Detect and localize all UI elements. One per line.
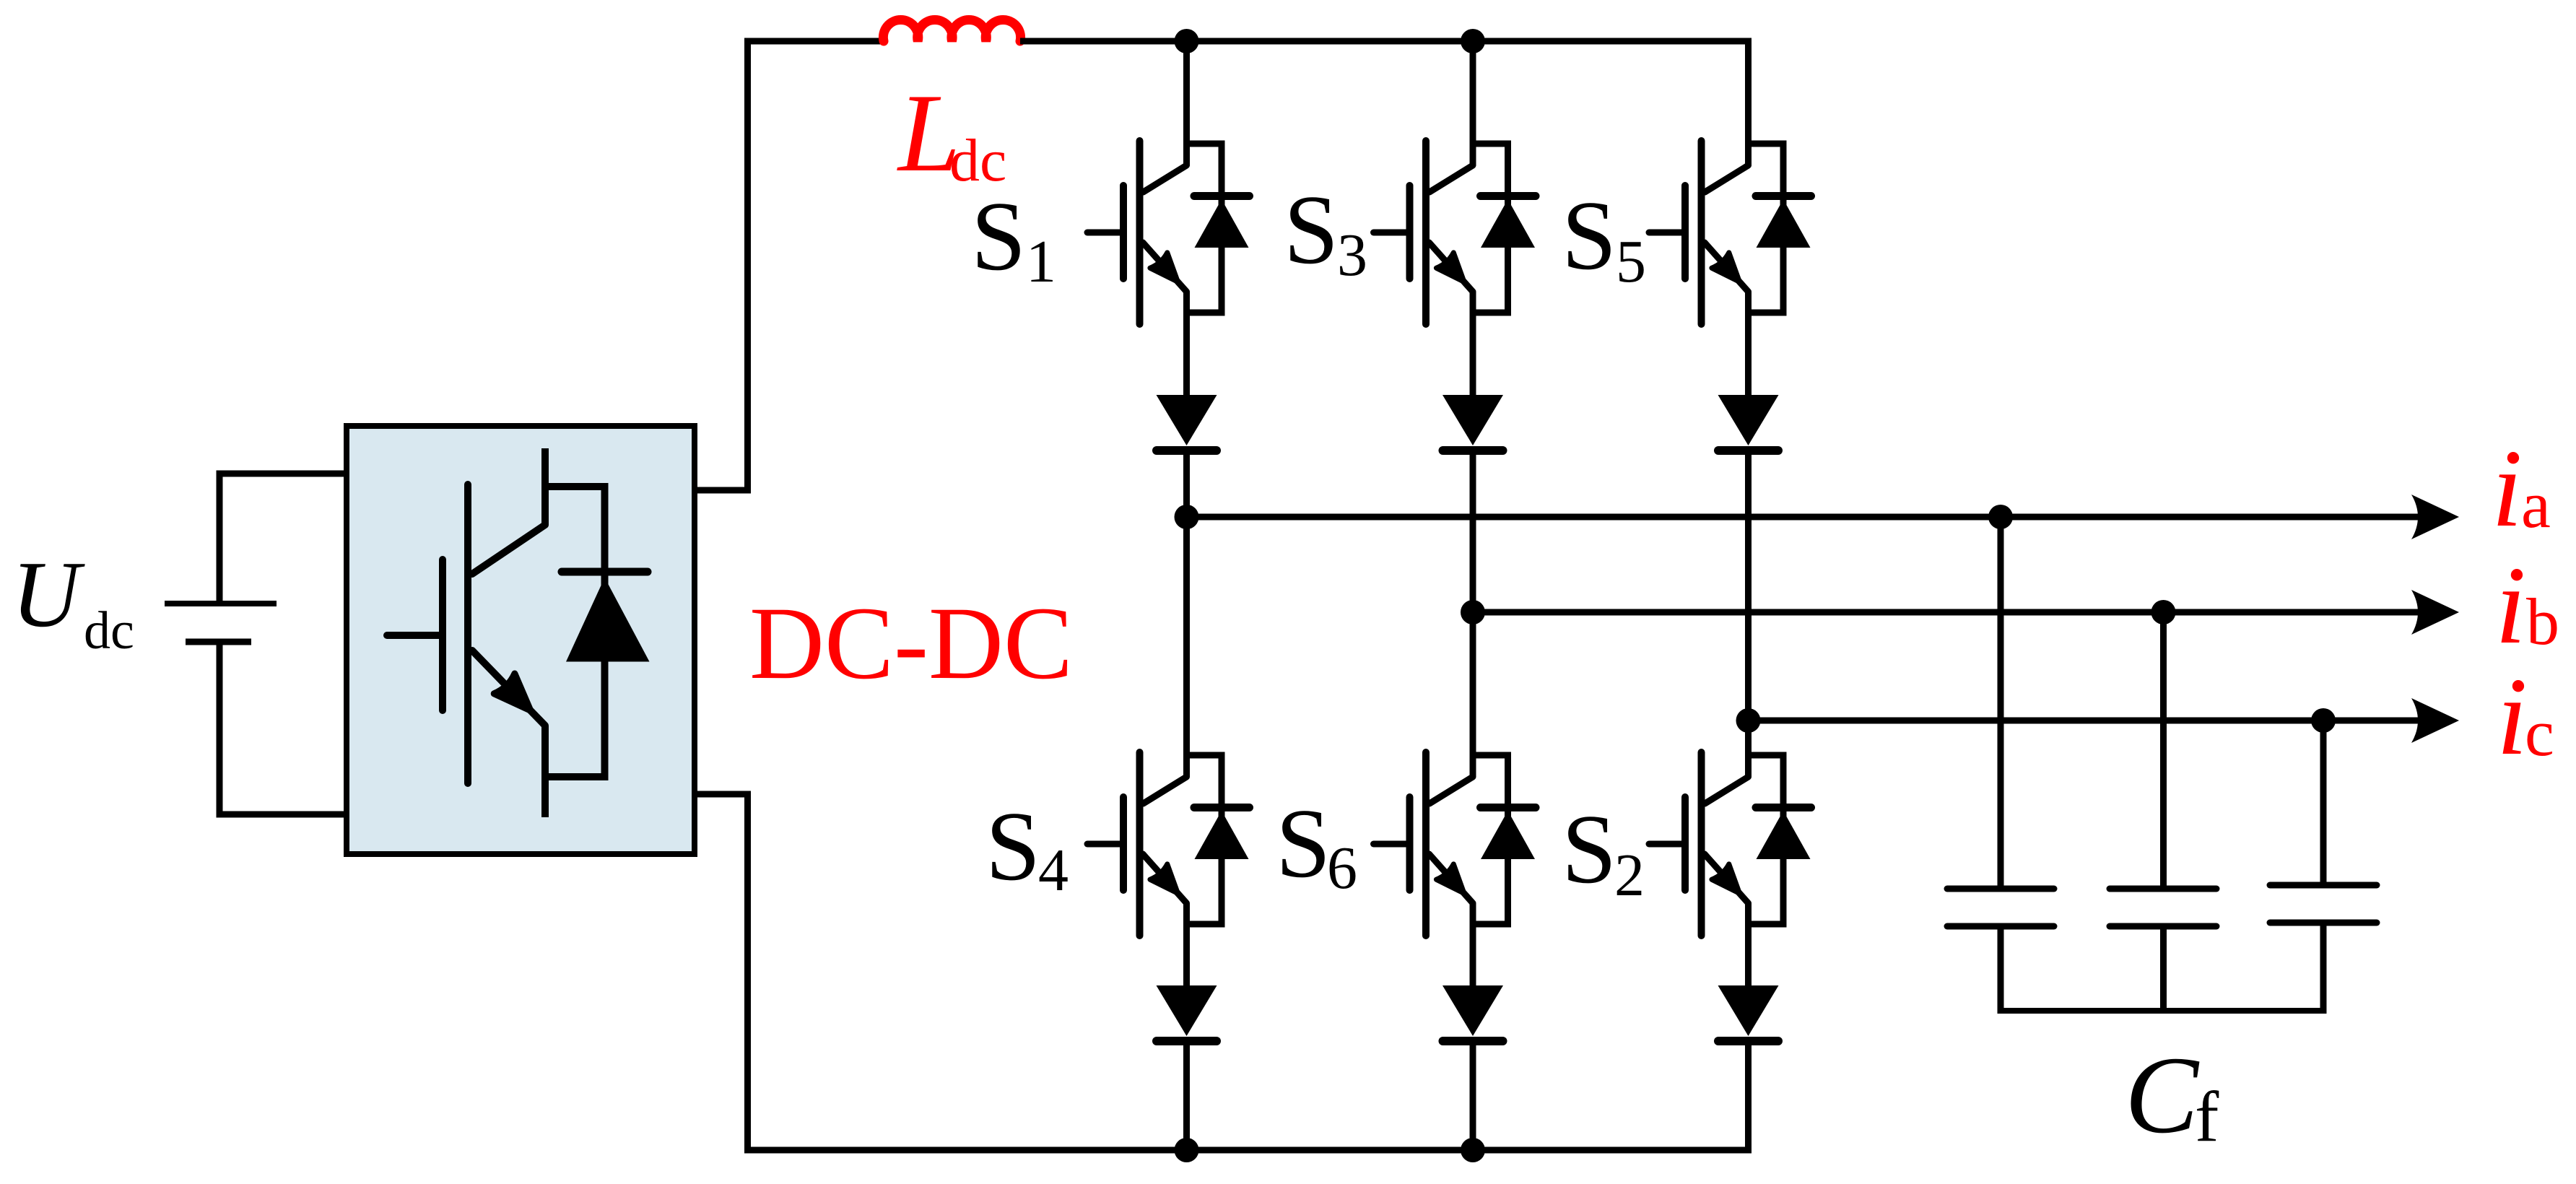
svg-text:a: a bbox=[2521, 468, 2551, 541]
battery U_dc negative plate bbox=[186, 639, 251, 645]
IGBT S1 collector-to-diode jog bbox=[1183, 141, 1225, 147]
svg-text:c: c bbox=[2525, 696, 2554, 770]
svg-text:4: 4 bbox=[1038, 837, 1069, 904]
svg-text:C: C bbox=[2125, 1035, 2200, 1157]
IGBT S2 emitter wire bbox=[1745, 903, 1752, 985]
IGBT S1 gate lead bbox=[1087, 230, 1123, 236]
node: bottom rail junction leg B bbox=[1461, 1138, 1485, 1162]
IGBT inside DC-DC block: emitter diagonal bbox=[472, 650, 545, 726]
IGBT inside DC-DC block: emitter jog bbox=[541, 773, 609, 780]
anti-parallel diode branch of S6 bbox=[1505, 752, 1511, 928]
wire: capacitor common bottom bbox=[1998, 1008, 2327, 1014]
IGBT S3 emitter diagonal bbox=[1430, 243, 1474, 292]
IGBT inside DC-DC block: body bar bbox=[464, 484, 471, 783]
anti-parallel diode of S5 cathode bar bbox=[1756, 192, 1811, 200]
IGBT S4 collector-to-diode jog bbox=[1183, 752, 1225, 759]
series diode below S6 triangle bbox=[1443, 985, 1503, 1036]
node: filter cap 2 junction bbox=[2151, 600, 2176, 624]
svg-text:i: i bbox=[2497, 656, 2528, 778]
svg-text:DC-DC: DC-DC bbox=[749, 586, 1073, 701]
IGBT S2 collector-to-diode jog bbox=[1745, 752, 1787, 759]
series diode below S2 anode wire bbox=[1745, 1045, 1752, 1150]
anti-parallel diode of S4 cathode bar bbox=[1194, 804, 1250, 811]
IGBT S6 collector wire bbox=[1470, 612, 1476, 777]
IGBT S1 emitter wire bbox=[1183, 292, 1190, 395]
arrowhead i_c bbox=[2411, 698, 2459, 743]
svg-text:S: S bbox=[985, 791, 1040, 901]
IGBT inside DC-DC block: gate lead bbox=[387, 632, 443, 639]
IGBT S3 gate plate bbox=[1406, 186, 1414, 279]
IGBT S2 emitter diagonal bbox=[1705, 854, 1749, 903]
IGBT S5 gate plate bbox=[1681, 186, 1689, 279]
IGBT S5 gate lead bbox=[1649, 230, 1685, 236]
IGBT inside DC-DC block: emitter arrowhead bbox=[494, 674, 531, 710]
capacitor C_f-2 bottom plate bbox=[2110, 923, 2216, 930]
IGBT inside DC-DC block: collector jog bbox=[541, 483, 609, 490]
capacitor C_f-1 top plate bbox=[1947, 886, 2054, 892]
node: bottom rail junction leg A bbox=[1175, 1138, 1199, 1162]
anti-parallel diode of S2 triangle bbox=[1757, 811, 1811, 859]
wire: battery negative to DC-DC input bbox=[219, 642, 349, 814]
svg-text:S: S bbox=[1276, 788, 1331, 898]
svg-text:i: i bbox=[2495, 544, 2526, 667]
IGBT S6 gate lead bbox=[1374, 841, 1410, 848]
IGBT S2 collector wire bbox=[1745, 721, 1752, 777]
series diode below S3 triangle bbox=[1443, 395, 1503, 445]
IGBT S3 collector diagonal bbox=[1430, 165, 1473, 192]
IGBT S2 gate plate bbox=[1681, 797, 1689, 890]
anti-parallel diode of S1 triangle bbox=[1195, 199, 1249, 248]
IGBT S6 emitter-to-diode jog bbox=[1470, 921, 1512, 928]
series diode below S4 anode wire bbox=[1183, 1045, 1190, 1150]
wire: top rail corner into leg C bbox=[1745, 38, 1752, 45]
IGBT S1 collector wire bbox=[1183, 41, 1190, 165]
IGBT S6 emitter wire bbox=[1470, 903, 1476, 985]
IGBT S5 collector-to-diode jog bbox=[1745, 141, 1787, 147]
svg-text:1: 1 bbox=[1026, 228, 1056, 295]
IGBT S3 collector wire bbox=[1470, 41, 1476, 165]
svg-text:S: S bbox=[1562, 180, 1616, 290]
anti-parallel diode branch of S2 bbox=[1780, 752, 1787, 928]
series diode below S1 triangle bbox=[1157, 395, 1217, 445]
anti-parallel diode branch of S5 bbox=[1780, 141, 1787, 316]
svg-text:3: 3 bbox=[1337, 222, 1367, 289]
IGBT S4 collector wire bbox=[1183, 517, 1190, 777]
IGBT S6 emitter arrowhead bbox=[1436, 864, 1464, 894]
svg-text:S: S bbox=[1562, 794, 1616, 904]
IGBT S2 collector diagonal bbox=[1705, 777, 1749, 804]
IGBT S4 emitter wire bbox=[1183, 903, 1190, 985]
wire: cap 2 lower lead bbox=[2160, 926, 2167, 1011]
series diode below S5 anode wire bbox=[1745, 455, 1752, 721]
IGBT S4 emitter-to-diode jog bbox=[1183, 921, 1225, 928]
IGBT S3 emitter-to-diode jog bbox=[1470, 310, 1512, 316]
IGBT S6 collector-to-diode jog bbox=[1470, 752, 1512, 759]
series diode below S5 cathode bar bbox=[1718, 446, 1778, 455]
IGBT S5 body bar bbox=[1698, 141, 1705, 324]
IGBT inside DC-DC block: collector diagonal bbox=[472, 525, 545, 574]
IGBT S1 body bar bbox=[1136, 141, 1144, 324]
anti-parallel diode of S3 cathode bar bbox=[1481, 192, 1536, 200]
IGBT S2 emitter arrowhead bbox=[1712, 864, 1740, 894]
anti-parallel diode of S4 triangle bbox=[1195, 811, 1249, 859]
IGBT S3 collector-to-diode jog bbox=[1470, 141, 1512, 147]
wire: cap 1 upper lead bbox=[1998, 517, 2004, 889]
battery U_dc positive plate bbox=[165, 601, 277, 606]
IGBT S5 emitter arrowhead bbox=[1712, 253, 1740, 282]
IGBT S5 collector wire bbox=[1745, 41, 1752, 165]
svg-text:5: 5 bbox=[1616, 228, 1646, 295]
node B junction bbox=[1461, 600, 1485, 624]
IGBT S6 gate plate bbox=[1406, 797, 1414, 890]
wire: cap 3 upper lead bbox=[2320, 721, 2327, 885]
wire: phase c output line bbox=[1749, 718, 2421, 724]
IGBT S1 emitter diagonal bbox=[1143, 243, 1187, 292]
IGBT inside DC-DC block: emitter wire bbox=[541, 726, 549, 817]
IGBT S6 body bar bbox=[1422, 752, 1430, 936]
wire: cap 2 upper lead bbox=[2160, 612, 2167, 889]
node: filter cap 1 junction bbox=[1988, 505, 2013, 529]
wire: cap 3 lower lead bbox=[2320, 923, 2327, 1011]
IGBT S1 emitter arrowhead bbox=[1150, 253, 1178, 282]
IGBT S4 emitter diagonal bbox=[1143, 854, 1187, 903]
node: top rail junction leg A bbox=[1175, 29, 1199, 53]
IGBT S3 body bar bbox=[1422, 141, 1430, 324]
series diode below S2 triangle bbox=[1718, 985, 1779, 1036]
IGBT S5 emitter wire bbox=[1745, 292, 1752, 395]
wire: battery positive to DC-DC input bbox=[219, 474, 349, 604]
capacitor C_f-1 bottom plate bbox=[1947, 923, 2054, 930]
svg-text:2: 2 bbox=[1614, 842, 1645, 909]
series diode below S3 anode wire bbox=[1470, 455, 1476, 612]
IGBT S4 collector diagonal bbox=[1144, 777, 1187, 804]
wire: DC-DC lower output riser to bottom rail bbox=[695, 794, 1752, 1150]
IGBT inside DC-DC block: gate plate bbox=[439, 560, 446, 710]
IGBT S1 collector diagonal bbox=[1144, 165, 1187, 192]
wire: DC-DC upper output riser to top rail bbox=[695, 41, 884, 490]
arrowhead i_b bbox=[2411, 590, 2459, 635]
IGBT S4 emitter arrowhead bbox=[1150, 864, 1178, 894]
IGBT inside DC-DC block: collector wire bbox=[541, 448, 549, 525]
IGBT S3 emitter wire bbox=[1470, 292, 1476, 395]
svg-text:S: S bbox=[971, 181, 1026, 291]
series diode below S3 cathode bar bbox=[1443, 446, 1503, 455]
IGBT S4 gate plate bbox=[1120, 797, 1127, 890]
IGBT S5 collector diagonal bbox=[1705, 165, 1749, 192]
series diode below S4 cathode bar bbox=[1157, 1037, 1217, 1045]
IGBT S3 emitter arrowhead bbox=[1436, 253, 1464, 282]
series diode below S6 cathode bar bbox=[1443, 1037, 1503, 1045]
wire: phase b output line bbox=[1473, 609, 2420, 616]
IGBT S2 body bar bbox=[1698, 752, 1705, 936]
series diode below S2 cathode bar bbox=[1718, 1037, 1778, 1045]
IGBT S4 body bar bbox=[1136, 752, 1144, 936]
anti-parallel diode of S3 triangle bbox=[1481, 199, 1535, 248]
IGBT S3 gate lead bbox=[1374, 230, 1410, 236]
anti-parallel diode of S6 triangle bbox=[1481, 811, 1535, 859]
svg-text:S: S bbox=[1284, 175, 1339, 284]
IGBT S2 emitter-to-diode jog bbox=[1745, 921, 1787, 928]
IGBT S5 emitter-to-diode jog bbox=[1745, 310, 1787, 316]
IGBT S6 emitter diagonal bbox=[1430, 854, 1474, 903]
node C junction bbox=[1736, 708, 1761, 733]
svg-text:f: f bbox=[2195, 1076, 2219, 1157]
IGBT S6 collector diagonal bbox=[1430, 777, 1473, 804]
inductor L_dc bbox=[883, 20, 1020, 41]
anti-parallel diode branch of S1 bbox=[1219, 141, 1225, 316]
anti-parallel diode of S5 triangle bbox=[1757, 199, 1811, 248]
IGBT S2 gate lead bbox=[1649, 841, 1685, 848]
arrowhead i_a bbox=[2411, 495, 2459, 539]
IGBT S5 emitter diagonal bbox=[1705, 243, 1749, 292]
series diode below S6 anode wire bbox=[1470, 1045, 1476, 1150]
wire: phase a output line bbox=[1187, 514, 2421, 521]
anti-parallel diode of S1 cathode bar bbox=[1194, 192, 1250, 200]
node: top rail junction leg B bbox=[1461, 29, 1485, 53]
anti-parallel diode of S2 cathode bar bbox=[1756, 804, 1811, 811]
svg-text:U: U bbox=[12, 542, 85, 647]
capacitor C_f-3 top plate bbox=[2270, 882, 2377, 889]
IGBT S1 emitter-to-diode jog bbox=[1183, 310, 1225, 316]
IGBT S4 gate lead bbox=[1087, 841, 1123, 848]
svg-text:b: b bbox=[2526, 585, 2559, 658]
series diode below S1 anode wire bbox=[1183, 455, 1190, 517]
IGBT S1 gate plate bbox=[1120, 186, 1127, 279]
wire: top rail bbox=[1020, 38, 1752, 45]
anti-parallel diode branch of S3 bbox=[1505, 141, 1511, 316]
node A junction bbox=[1175, 505, 1199, 529]
node: filter cap 3 junction bbox=[2311, 708, 2336, 733]
capacitor C_f-3 bottom plate bbox=[2270, 920, 2377, 926]
diode inside DC-DC block: cathode bar bbox=[562, 568, 648, 576]
series diode below S1 cathode bar bbox=[1157, 446, 1217, 455]
svg-text:i: i bbox=[2492, 427, 2523, 550]
diode branch inside DC-DC block bbox=[601, 483, 609, 780]
DC-DC converter block bbox=[347, 426, 695, 854]
svg-text:dc: dc bbox=[84, 601, 134, 661]
anti-parallel diode branch of S4 bbox=[1219, 752, 1225, 928]
anti-parallel diode of S6 cathode bar bbox=[1481, 804, 1536, 811]
wire: cap 1 lower lead bbox=[1998, 926, 2004, 1011]
series diode below S5 triangle bbox=[1718, 395, 1779, 445]
svg-text:6: 6 bbox=[1327, 835, 1357, 902]
diode inside DC-DC block: triangle bbox=[566, 578, 650, 662]
series diode below S4 triangle bbox=[1157, 985, 1217, 1036]
capacitor C_f-2 top plate bbox=[2110, 886, 2216, 892]
